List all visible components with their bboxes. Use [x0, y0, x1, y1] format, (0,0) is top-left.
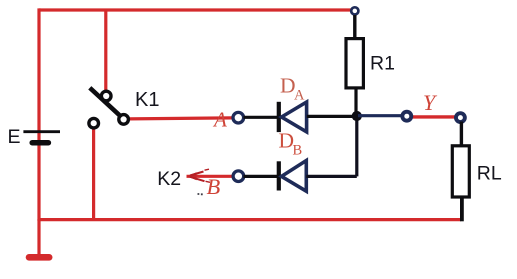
- wire switch left throw to bottom rail: [92, 127, 95, 221]
- terminal top right: [351, 7, 358, 14]
- switch K1 right throw contact: [119, 115, 129, 125]
- K2 arrow annotation: [187, 172, 197, 180]
- wire R1 to junction: [354, 88, 357, 116]
- wire DB to junction branch: [306, 116, 357, 176]
- svg-text:Y: Y: [423, 90, 438, 115]
- diode DB cathode bar: [277, 161, 281, 190]
- svg-text:K2: K2: [157, 168, 181, 190]
- wire ground lead: [37, 219, 40, 256]
- wire switch branch vertical: [104, 10, 107, 91]
- svg-text:A: A: [212, 107, 227, 131]
- svg-text:RL: RL: [477, 163, 502, 185]
- wire top rail: [39, 8, 351, 11]
- node B terminal: [233, 171, 244, 182]
- wire terminal to R1: [353, 15, 356, 39]
- wire input B: [187, 175, 234, 178]
- diode DB triangle: [282, 161, 307, 192]
- node Y right terminal: [456, 113, 465, 122]
- ground: [29, 254, 49, 261]
- svg-text:K1: K1: [135, 89, 159, 111]
- wire RL to bottom rail: [460, 197, 464, 221]
- wire A terminal to diode DA: [244, 116, 278, 119]
- diode DA triangle: [282, 102, 307, 132]
- node Y left terminal: [402, 112, 411, 121]
- wire bottom rail: [39, 218, 461, 221]
- wire DA to junction: [307, 115, 357, 118]
- diode DA cathode bar: [277, 102, 281, 132]
- svg-text:B: B: [207, 174, 221, 199]
- switch K1 left throw contact: [89, 118, 99, 128]
- wire Y output: [412, 115, 456, 118]
- svg-text:E: E: [8, 126, 21, 148]
- svg-text:A: A: [294, 88, 305, 104]
- svg-text:B: B: [293, 143, 303, 159]
- wire K1 to input A: [129, 118, 232, 119]
- node A terminal: [233, 112, 244, 123]
- resistor RL: [452, 146, 469, 197]
- wire junction to Y terminal: [358, 114, 402, 117]
- resistor R1: [346, 39, 363, 88]
- switch K1 lever: [90, 88, 123, 118]
- wire B terminal to diode DB: [244, 175, 278, 178]
- switch K1 pole contact: [101, 91, 111, 101]
- svg-text:R1: R1: [370, 53, 395, 75]
- junction node: [352, 111, 362, 121]
- wire Y terminal to RL: [460, 122, 463, 147]
- wire left vertical from rail to battery and ground: [37, 8, 40, 221]
- small marks under B: [198, 193, 203, 195]
- battery E plates: [23, 132, 60, 143]
